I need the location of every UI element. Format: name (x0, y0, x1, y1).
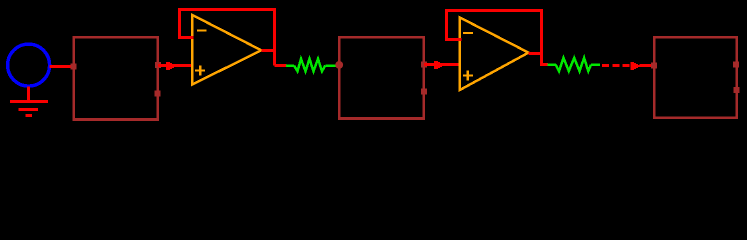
pin X1 right top (155, 62, 161, 68)
arrow (166, 62, 176, 70)
minus label U1 (197, 29, 206, 31)
wire U2 output (529, 52, 544, 55)
wire V1 to X1 (50, 65, 74, 68)
pin X1 left (71, 64, 77, 70)
ground (10, 102, 48, 116)
wire U1 inverting input (178, 36, 194, 39)
wire U1 feedback loop (180, 10, 275, 66)
junction node (335, 61, 343, 69)
pin X2 right bottom (421, 89, 427, 95)
plus label U2 (463, 71, 473, 81)
wire V1 to ground (27, 87, 30, 102)
pin X1 right bottom (155, 91, 161, 97)
pin X2 right top (421, 62, 427, 68)
pin X3 right bottom (734, 87, 740, 93)
wire U2 feedback loop (447, 11, 542, 67)
wire dashed (602, 64, 631, 67)
wire to R2 (542, 63, 549, 66)
wire X1 to U1 (158, 64, 192, 67)
resistor R2 (547, 58, 600, 71)
wire X2 to U2 (424, 63, 460, 66)
pin X3 left (651, 63, 657, 69)
minus label U2 (463, 32, 473, 34)
pin X3 right top (733, 62, 739, 68)
plus label U1 (195, 66, 205, 76)
block X2 (339, 37, 423, 118)
wire U1 output (261, 49, 276, 52)
resistor R1 (286, 59, 337, 72)
block X1 (74, 37, 158, 119)
arrow (631, 62, 640, 70)
op-amp U1 (192, 15, 261, 85)
op-amp U2 (460, 18, 529, 91)
wire U2 inverting input (445, 38, 461, 41)
block X3 (654, 37, 736, 117)
voltage source V1 (8, 44, 50, 86)
arrow (434, 61, 444, 69)
wire to X3 (640, 64, 654, 67)
wire to R1 (275, 64, 287, 67)
